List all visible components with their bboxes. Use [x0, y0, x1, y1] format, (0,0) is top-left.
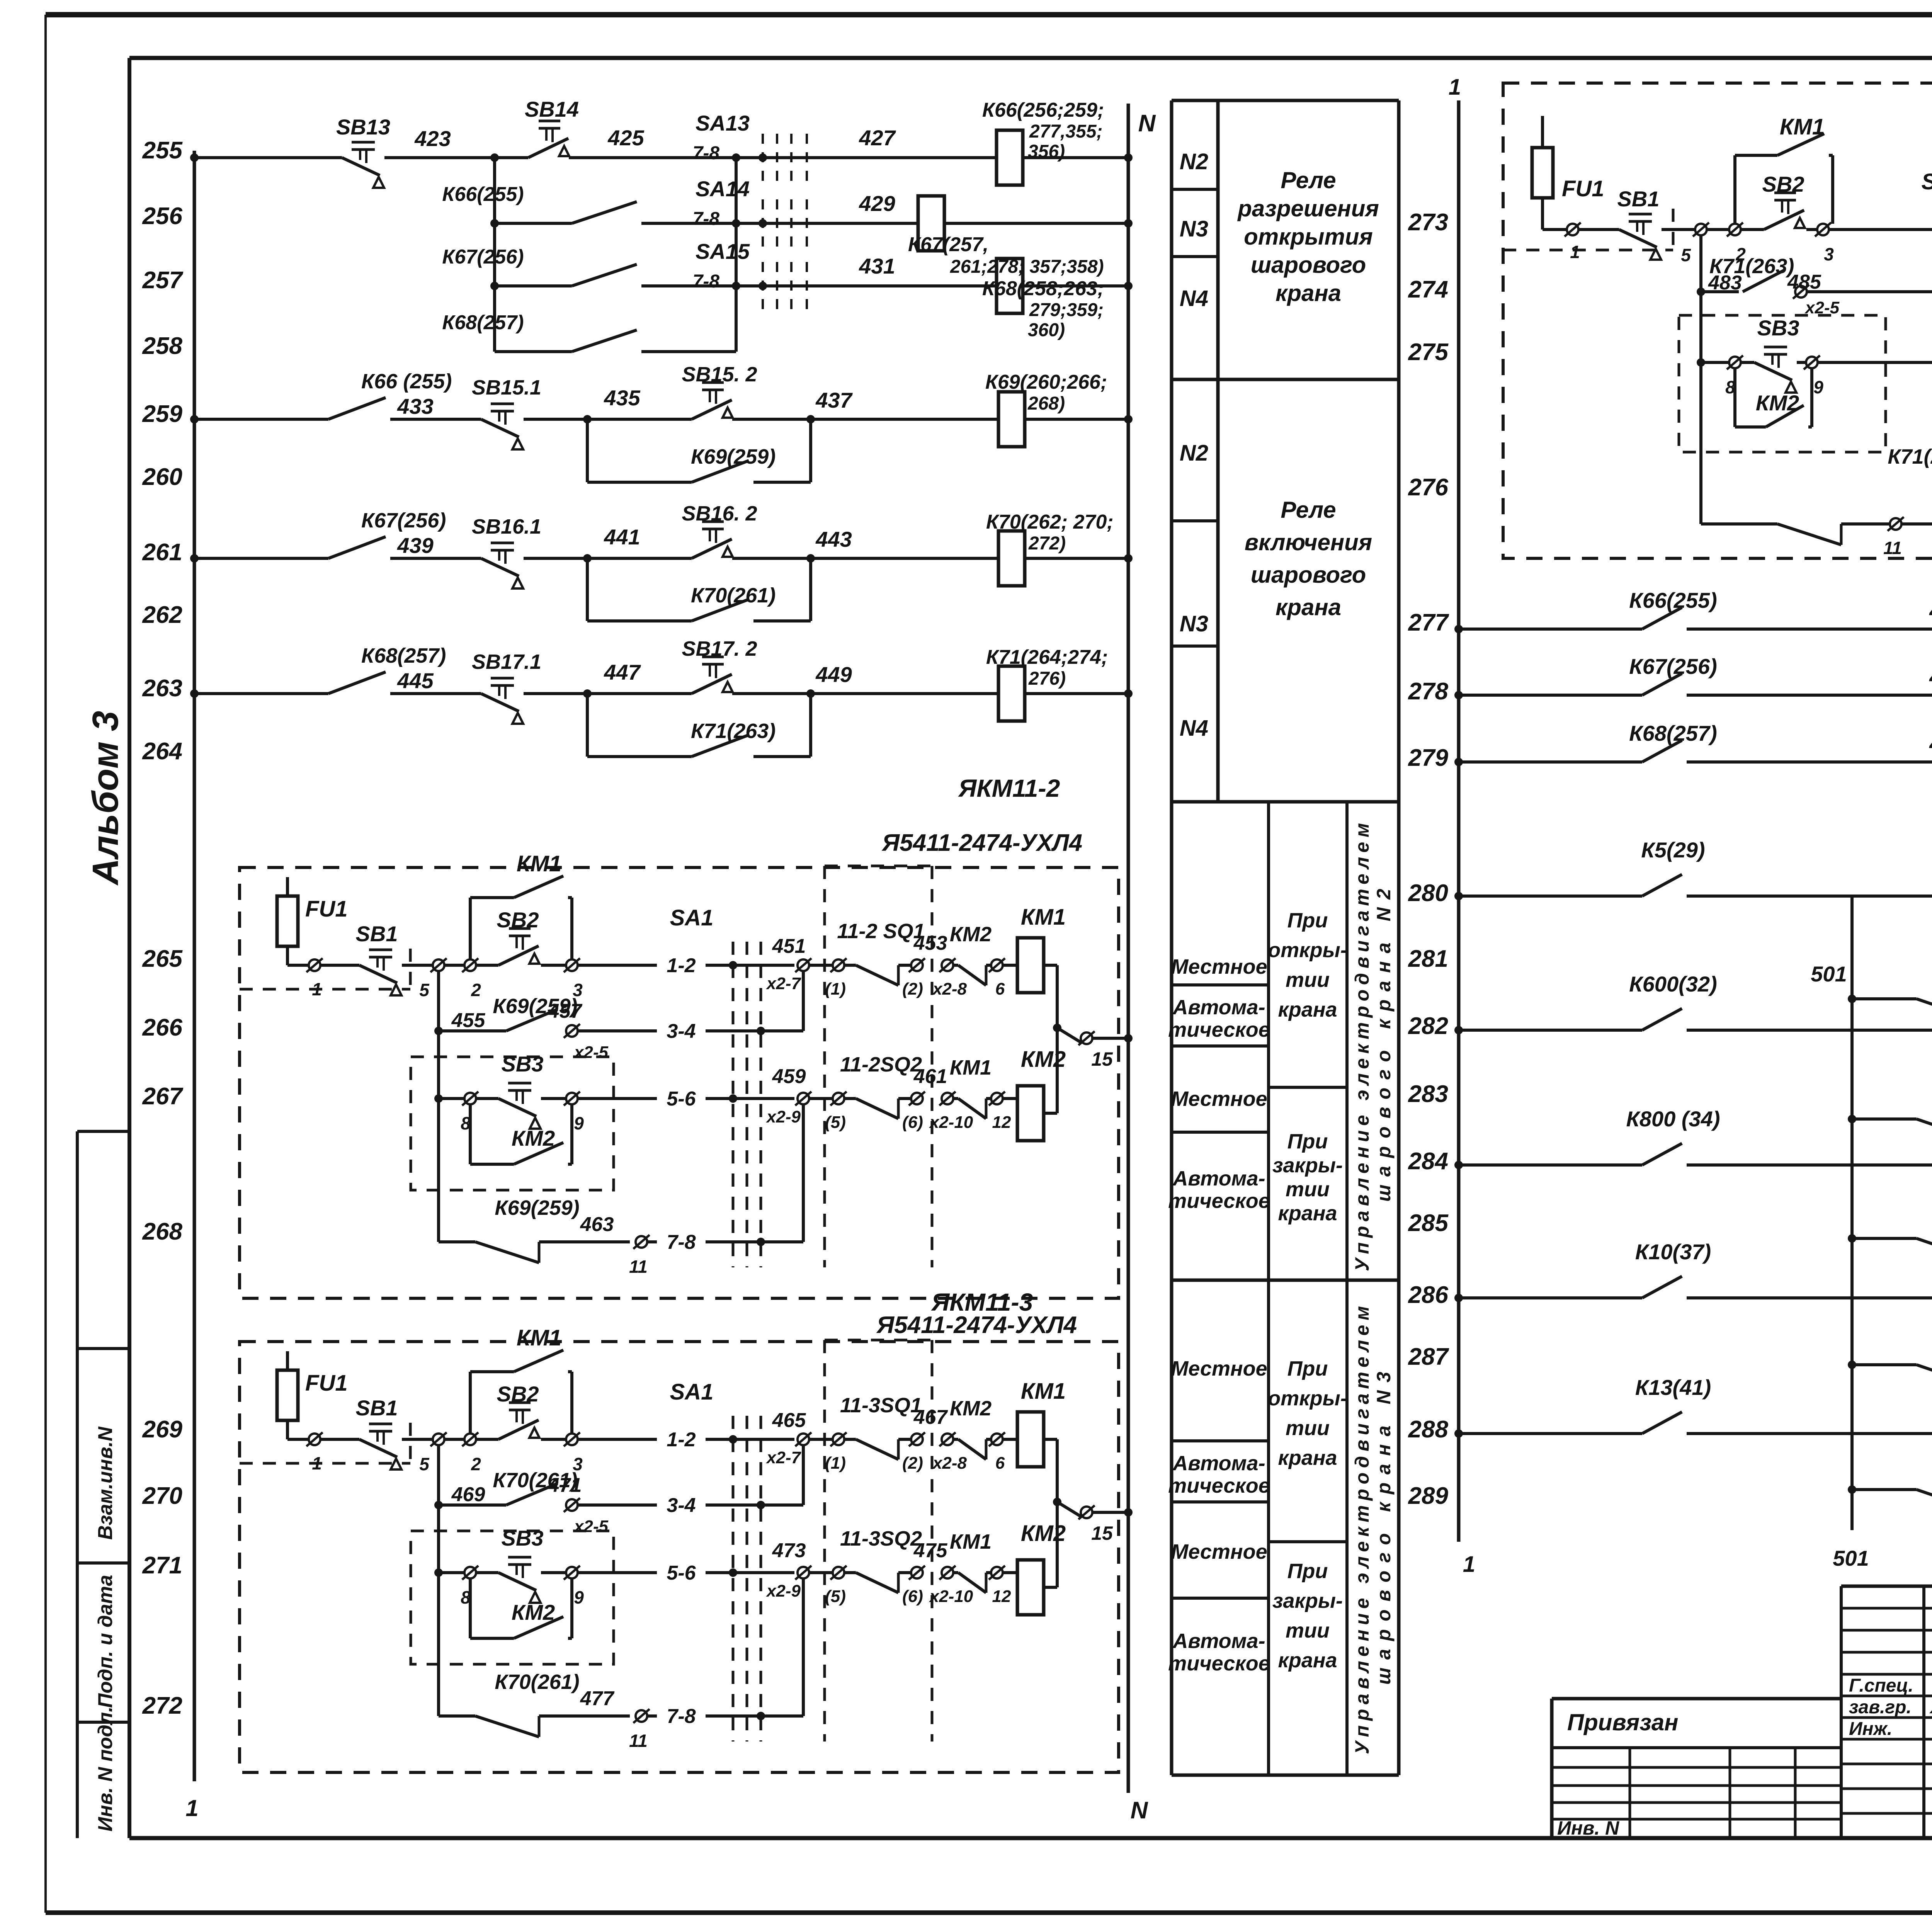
contact К68(257) row 258: [495, 350, 572, 353]
SB3 sub-box dashed: [411, 1531, 614, 1664]
svg-text:Управление электродвигателем: Управление электродвигателем: [1351, 823, 1373, 1271]
terminal 5 junction right: [1695, 224, 1707, 235]
svg-text:262: 262: [142, 602, 182, 628]
svg-text:SA15: SA15: [696, 239, 750, 264]
svg-text:1: 1: [1570, 242, 1580, 262]
svg-text:467: 467: [913, 1406, 948, 1429]
hold contact К10(37) from wire 501: [1848, 1361, 1856, 1369]
terminal 2: [464, 959, 476, 971]
fuse FU1 right: [1541, 116, 1544, 230]
terminal 5 junction: [433, 1434, 444, 1445]
svg-text:266: 266: [142, 1014, 183, 1041]
svg-text:451: 451: [772, 935, 806, 957]
svg-text:9: 9: [574, 1587, 584, 1607]
svg-text:КМ2: КМ2: [512, 1126, 555, 1150]
contact К66(255) row 256: [495, 222, 572, 225]
svg-text:11-2 SQ1: 11-2 SQ1: [837, 920, 925, 943]
svg-text:Подп. и дата: Подп. и дата: [94, 1575, 117, 1708]
terminal 3: [566, 959, 578, 971]
svg-text:К66(255): К66(255): [442, 183, 524, 206]
svg-text:7-8: 7-8: [667, 1705, 696, 1728]
row 7-8: hold contact К69(259): [439, 1240, 475, 1243]
svg-text:1: 1: [312, 1453, 322, 1473]
row 3-4 right: contact К71(263): [1697, 287, 1705, 296]
svg-text:КМ1: КМ1: [517, 1325, 561, 1350]
svg-text:SB17. 2: SB17. 2: [682, 637, 757, 660]
svg-text:Инж.: Инж.: [1849, 1719, 1892, 1739]
terminal 2 right: [1729, 224, 1741, 235]
svg-text:x2-7: x2-7: [766, 1448, 802, 1467]
hold contact К13(41) from wire 501: [1848, 1485, 1856, 1494]
svg-text:285: 285: [1408, 1210, 1449, 1236]
svg-text:SA1: SA1: [670, 905, 714, 930]
svg-text:493: 493: [1929, 599, 1932, 623]
svg-text:5: 5: [419, 980, 430, 1000]
bus 1 right vertical: [1457, 100, 1461, 1542]
svg-text:тии: тии: [1286, 1178, 1330, 1201]
switch SA14 dashed group: [762, 199, 764, 247]
outer sheet border bottom: [46, 1910, 1932, 1915]
svg-text:457: 457: [548, 1000, 583, 1022]
svg-text:263: 263: [142, 675, 182, 702]
svg-text:11: 11: [629, 1731, 648, 1751]
svg-text:x2-9: x2-9: [766, 1107, 801, 1126]
svg-text:FU1: FU1: [305, 1371, 348, 1396]
svg-text:1: 1: [312, 979, 322, 999]
terminal 6: [986, 964, 991, 967]
svg-text:КМ2: КМ2: [1021, 1521, 1066, 1546]
svg-text:тии: тии: [1286, 968, 1330, 992]
svg-text:425: 425: [607, 126, 644, 150]
svg-text:Инв. N: Инв. N: [1557, 1817, 1619, 1839]
svg-text:К69(260;266;: К69(260;266;: [985, 371, 1107, 393]
svg-text:12: 12: [992, 1587, 1011, 1606]
svg-text:286: 286: [1408, 1282, 1449, 1308]
svg-text:Местное: Местное: [1171, 1087, 1267, 1111]
terminal 11: [636, 1710, 647, 1722]
svg-text:495: 495: [1929, 665, 1932, 689]
svg-text:423: 423: [414, 126, 451, 151]
svg-text:360): 360): [1028, 320, 1065, 340]
svg-text:Реле: Реле: [1281, 167, 1336, 193]
svg-text:N3: N3: [1180, 216, 1208, 241]
terminal x2-8: [942, 959, 953, 971]
outer sheet border top: [46, 12, 1932, 17]
svg-text:5: 5: [419, 1454, 430, 1474]
relay coil: [998, 392, 1025, 447]
svg-text:11-3SQ2: 11-3SQ2: [840, 1527, 922, 1550]
row 3-4: contact К69(259): [434, 1027, 443, 1035]
svg-text:К800 (34): К800 (34): [1626, 1107, 1720, 1131]
svg-text:(2): (2): [902, 980, 923, 998]
pushbutton SB1: [369, 1423, 392, 1425]
svg-text:431: 431: [859, 254, 895, 278]
svg-text:FU1: FU1: [1562, 176, 1604, 201]
svg-text:x2-5: x2-5: [573, 1517, 609, 1536]
pushbutton SB3 right: [1764, 346, 1787, 349]
svg-text:273: 273: [1408, 209, 1448, 236]
svg-text:тическое: тическое: [1168, 1018, 1270, 1041]
svg-text:272): 272): [1028, 533, 1066, 554]
relay coil K68: [997, 259, 1023, 313]
svg-text:SA14: SA14: [696, 177, 750, 201]
svg-text:К66(256;259;: К66(256;259;: [982, 99, 1104, 121]
fuse FU1: [286, 877, 289, 965]
svg-text:261;278; 357;358): 261;278; 357;358): [950, 257, 1104, 277]
contactor coil KM2: [1003, 1097, 1017, 1100]
svg-text:2: 2: [471, 1454, 481, 1474]
midtable sec D left cells: [1172, 1439, 1269, 1442]
svg-text:FU1: FU1: [305, 896, 348, 922]
svg-text:К71(263): К71(263): [1709, 255, 1794, 278]
svg-text:15: 15: [1091, 1522, 1113, 1544]
svg-text:x2-9: x2-9: [766, 1582, 801, 1600]
svg-text:При: При: [1287, 1560, 1328, 1583]
parallel contact К71(263): [586, 694, 589, 757]
terminal 1: [309, 959, 320, 971]
svg-text:477: 477: [580, 1687, 615, 1710]
svg-text:SB3: SB3: [502, 1052, 544, 1076]
svg-text:КМ1: КМ1: [1780, 114, 1825, 139]
junction 5 vertical: [437, 1445, 440, 1716]
relay coil: [998, 666, 1025, 721]
pushbutton SB17. 2: [702, 656, 724, 658]
svg-text:Инв. N подл.: Инв. N подл.: [94, 1706, 117, 1832]
svg-text:x2-10: x2-10: [929, 1587, 973, 1606]
svg-text:429: 429: [859, 191, 895, 216]
parallel contact К69(259): [586, 419, 589, 482]
svg-text:1: 1: [1463, 1552, 1475, 1577]
pushbutton SB2 right: [1774, 192, 1796, 194]
junction 5 vertical: [437, 971, 440, 1242]
midtable sec D mid cells: [1269, 1540, 1347, 1543]
relay coil K66: [997, 130, 1023, 185]
svg-text:SB17.1: SB17.1: [472, 650, 541, 673]
switch SA1 dashed lines: [732, 1416, 735, 1742]
bus N left vertical: [1127, 104, 1130, 1793]
svg-text:1: 1: [1449, 75, 1461, 100]
contact К10(37) lamp row: [1454, 1294, 1463, 1302]
svg-text:К66(255): К66(255): [1629, 588, 1717, 612]
svg-text:SB1: SB1: [356, 1396, 398, 1420]
svg-text:SB2: SB2: [1762, 172, 1804, 196]
svg-text:шарового: шарового: [1251, 252, 1366, 278]
svg-text:261: 261: [142, 539, 182, 566]
title block small left table: [1629, 1748, 1631, 1838]
parallel contacts verticals rows 256-258: [493, 158, 496, 352]
fuse FU1: [286, 1351, 289, 1439]
wire 501 vertical: [1850, 896, 1854, 1530]
pushbutton SB17.1: [491, 677, 514, 680]
svg-text:441: 441: [604, 525, 640, 549]
entry sub-box dashed: [240, 988, 410, 991]
dashed enclosure ЯКМ11-2: [240, 867, 1119, 1298]
switch SA15 dashed group: [762, 262, 764, 310]
contact К67(256) row 257: [495, 284, 572, 287]
svg-text:Автома-: Автома-: [1172, 1629, 1265, 1653]
svg-text:435: 435: [604, 386, 640, 410]
left margin stamp boxes: [76, 1131, 79, 1838]
svg-text:289: 289: [1408, 1483, 1449, 1509]
svg-text:265: 265: [142, 946, 183, 972]
svg-text:x2-10: x2-10: [929, 1113, 973, 1132]
KM1 self-hold bridge: [469, 1372, 472, 1434]
svg-text:SB2: SB2: [497, 908, 539, 932]
contact К67(256) lamp row: [1454, 691, 1463, 699]
svg-text:К600(32): К600(32): [1629, 972, 1717, 996]
svg-text:К68(257): К68(257): [1629, 721, 1717, 745]
svg-text:277: 277: [1408, 609, 1449, 636]
svg-text:Реле: Реле: [1281, 497, 1336, 523]
svg-text:275: 275: [1408, 339, 1449, 366]
dashed enclosure Я5411-2474-УХЛ4 right: [1503, 83, 1932, 558]
contactor coil KM1: [1003, 964, 1017, 967]
pushbutton SB2: [509, 927, 531, 930]
contactor coil KM2: [1003, 1571, 1017, 1574]
svg-text:(5): (5): [825, 1587, 846, 1606]
svg-text:SB16. 2: SB16. 2: [682, 502, 757, 525]
svg-text:крана: крана: [1278, 998, 1337, 1021]
svg-text:SB1: SB1: [356, 922, 398, 946]
svg-text:К67(256): К67(256): [442, 246, 524, 268]
svg-text:Управление электродвигателем: Управление электродвигателем: [1351, 1306, 1373, 1754]
svg-text:КМ2: КМ2: [1756, 391, 1799, 415]
svg-text:SA1: SA1: [1922, 169, 1932, 194]
pushbutton SB3: [508, 1556, 531, 1559]
KM coils common wire and terminal 15: [1044, 964, 1057, 967]
terminal (1): [809, 1438, 833, 1441]
dashed enclosure ЯКМ11-3: [240, 1342, 1119, 1772]
svg-text:К71(263): К71(263): [691, 719, 776, 743]
KM2 self-hold bridge right: [1733, 368, 1736, 427]
svg-text:449: 449: [815, 662, 852, 687]
svg-text:5-6: 5-6: [667, 1088, 696, 1110]
svg-text:471: 471: [548, 1474, 582, 1497]
svg-text:497: 497: [1929, 731, 1932, 756]
svg-text:открытия: открытия: [1244, 224, 1373, 250]
svg-text:К13(41): К13(41): [1635, 1375, 1711, 1400]
pushbutton SB15. 2: [702, 381, 724, 384]
svg-text:1-2: 1-2: [667, 954, 696, 977]
svg-text:260: 260: [142, 464, 182, 490]
svg-text:N2: N2: [1180, 149, 1208, 174]
KM2 self-hold bridge: [469, 1578, 472, 1638]
svg-text:Автома-: Автома-: [1172, 996, 1265, 1019]
inner SQ dashed box: [823, 1340, 826, 1742]
pushbutton SB16.1: [491, 542, 514, 544]
svg-text:N4: N4: [1180, 716, 1208, 741]
svg-text:N3: N3: [1180, 611, 1208, 636]
svg-text:427: 427: [859, 126, 896, 150]
entry sub-box dashed right: [1503, 249, 1673, 252]
svg-text:267: 267: [142, 1083, 184, 1110]
svg-text:276): 276): [1028, 668, 1066, 689]
svg-text:Автома-: Автома-: [1172, 1452, 1265, 1475]
svg-text:268: 268: [142, 1218, 183, 1245]
svg-text:Местное: Местное: [1171, 1540, 1267, 1563]
terminal 12: [986, 1097, 991, 1100]
svg-text:тии: тии: [1286, 1619, 1330, 1642]
svg-text:7-8: 7-8: [693, 209, 720, 229]
svg-text:При: При: [1287, 1130, 1328, 1153]
svg-text:SB1: SB1: [1617, 187, 1660, 211]
svg-text:x2-7: x2-7: [766, 974, 802, 993]
svg-text:(2): (2): [902, 1454, 923, 1473]
svg-text:11: 11: [1883, 538, 1902, 558]
svg-text:453: 453: [913, 932, 947, 954]
svg-text:501: 501: [1833, 1546, 1869, 1570]
terminal 3 right: [1817, 224, 1829, 235]
svg-text:264: 264: [142, 738, 182, 765]
svg-text:Взам.инв.N: Взам.инв.N: [94, 1426, 117, 1540]
svg-text:9: 9: [574, 1113, 584, 1133]
svg-text:крана: крана: [1276, 280, 1341, 306]
pushbutton SB15.1: [491, 403, 514, 405]
svg-text:К71(263): К71(263): [1888, 445, 1932, 468]
svg-text:433: 433: [397, 394, 433, 418]
svg-text:473: 473: [772, 1539, 806, 1562]
svg-text:(1): (1): [825, 1454, 846, 1473]
svg-text:12: 12: [992, 1113, 1011, 1132]
middle annotation table frame: [1170, 100, 1173, 1775]
svg-text:КМ2: КМ2: [512, 1600, 555, 1624]
svg-text:7-8: 7-8: [667, 1231, 696, 1253]
svg-text:При: При: [1287, 909, 1328, 932]
svg-text:N: N: [1131, 1797, 1148, 1824]
midtable sec C mid cells: При открытии / закрытии крана: [1269, 1086, 1347, 1089]
svg-text:x2-5: x2-5: [573, 1043, 609, 1062]
svg-text:К69(259): К69(259): [691, 445, 776, 468]
entry sub-box dashed: [240, 1462, 410, 1465]
svg-text:276: 276: [1408, 474, 1449, 501]
svg-text:278: 278: [1408, 678, 1449, 705]
KM1 self-hold bridge right: [1733, 155, 1736, 224]
title block top line: [1841, 1585, 1932, 1588]
svg-text:443: 443: [815, 527, 852, 551]
svg-text:шарового: шарового: [1251, 562, 1366, 588]
svg-text:тическое: тическое: [1168, 1189, 1270, 1213]
svg-text:откры-: откры-: [1268, 939, 1347, 962]
svg-text:тическое: тическое: [1168, 1474, 1270, 1497]
svg-text:(5): (5): [825, 1113, 846, 1132]
title block Привязан box: [1552, 1697, 1841, 1701]
svg-text:крана: крана: [1278, 1446, 1337, 1469]
pushbutton SB13: [352, 141, 375, 144]
svg-text:К68(257): К68(257): [361, 644, 446, 667]
svg-text:9: 9: [1813, 377, 1823, 397]
terminal (1): [809, 964, 833, 967]
contact К800 (34) lamp row: [1454, 1161, 1463, 1169]
contact К600(32) lamp row: [1454, 1026, 1463, 1034]
terminal 1 right: [1567, 224, 1578, 235]
pushbutton SB2: [509, 1401, 531, 1404]
svg-text:x2-8: x2-8: [932, 1454, 967, 1473]
svg-text:К68(258;263;: К68(258;263;: [982, 277, 1104, 300]
svg-text:(6): (6): [902, 1587, 923, 1606]
svg-text:К70(261): К70(261): [691, 584, 776, 607]
svg-text:К67(257,: К67(257,: [908, 233, 988, 256]
svg-text:К67(256): К67(256): [361, 509, 446, 532]
svg-text:258: 258: [142, 333, 183, 359]
row 7-8 right: hold contact К71(263): [1701, 522, 1777, 526]
pushbutton SB16. 2: [702, 520, 724, 523]
svg-text:282: 282: [1408, 1013, 1448, 1039]
KM coils common wire and terminal 15: [1044, 1438, 1057, 1441]
contactor coil KM1: [1003, 1438, 1017, 1441]
svg-text:459: 459: [772, 1065, 806, 1088]
svg-text:тическое: тическое: [1168, 1652, 1270, 1675]
svg-text:SB3: SB3: [502, 1526, 544, 1550]
svg-text:К67(256): К67(256): [1629, 654, 1717, 679]
pushbutton SB1 right: [1629, 213, 1652, 216]
svg-text:N: N: [1138, 110, 1156, 137]
KM1 self-hold bridge: [469, 898, 472, 959]
svg-text:SB15. 2: SB15. 2: [682, 363, 757, 386]
svg-text:3: 3: [1824, 244, 1834, 264]
svg-text:SB13: SB13: [336, 115, 390, 139]
terminal 9: [566, 1093, 578, 1104]
terminal (5): [809, 1097, 833, 1100]
svg-text:283: 283: [1408, 1081, 1448, 1107]
terminal 12: [986, 1571, 991, 1574]
bus 1 left vertical: [193, 151, 196, 1781]
svg-text:К69(259): К69(259): [495, 1196, 579, 1219]
svg-text:(6): (6): [902, 1113, 923, 1132]
svg-text:разрешения: разрешения: [1237, 196, 1379, 221]
svg-text:455: 455: [451, 1009, 486, 1032]
relay coil: [998, 531, 1025, 586]
svg-text:279;359;: 279;359;: [1029, 300, 1104, 320]
svg-text:ЯКМ11-2: ЯКМ11-2: [958, 774, 1060, 802]
svg-text:При: При: [1287, 1357, 1328, 1380]
midtable sec B row cells: [1172, 519, 1218, 522]
terminal x2-10: [942, 1567, 953, 1578]
svg-text:463: 463: [580, 1213, 614, 1236]
svg-text:КМ2: КМ2: [950, 923, 992, 946]
svg-text:255: 255: [142, 137, 183, 164]
svg-text:К70(262; 270;: К70(262; 270;: [986, 511, 1114, 533]
contact К67(256): [194, 557, 328, 560]
terminal 2: [464, 1434, 476, 1445]
row 5-6: terminal 8: [434, 1094, 443, 1103]
svg-text:Местное: Местное: [1171, 955, 1267, 978]
pushbutton SB14: [539, 120, 560, 122]
hold contact К5(29) from wire 501: [1848, 995, 1856, 1003]
svg-text:КМ1: КМ1: [1021, 905, 1066, 930]
svg-text:КМ2: КМ2: [950, 1397, 992, 1420]
svg-text:7-8: 7-8: [693, 271, 720, 292]
svg-text:1: 1: [185, 1795, 198, 1821]
svg-text:Альбом 3: Альбом 3: [85, 711, 126, 886]
svg-text:К68(257): К68(257): [442, 311, 524, 334]
svg-text:3-4: 3-4: [667, 1494, 696, 1517]
svg-text:284: 284: [1408, 1148, 1448, 1175]
svg-text:К5(29): К5(29): [1641, 838, 1705, 862]
svg-text:288: 288: [1408, 1416, 1449, 1443]
svg-text:469: 469: [451, 1483, 485, 1506]
svg-text:2: 2: [471, 980, 481, 1000]
svg-text:Я5411-2474-УХЛ4: Я5411-2474-УХЛ4: [876, 1312, 1077, 1338]
svg-text:включения: включения: [1245, 529, 1372, 555]
svg-text:N2: N2: [1180, 440, 1208, 466]
svg-text:274: 274: [1408, 276, 1448, 303]
svg-text:15: 15: [1091, 1048, 1113, 1070]
svg-text:501: 501: [1811, 962, 1847, 986]
row 3-4: contact К70(261): [434, 1501, 443, 1509]
svg-text:437: 437: [815, 388, 853, 412]
svg-text:крана: крана: [1278, 1202, 1337, 1225]
svg-text:268): 268): [1027, 393, 1065, 414]
